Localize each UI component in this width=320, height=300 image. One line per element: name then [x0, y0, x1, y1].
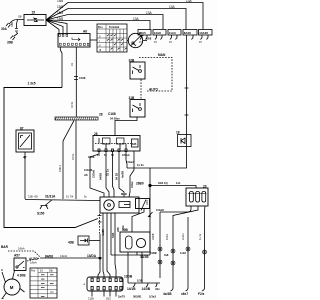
svg-text:13A: 13A — [186, 0, 193, 3]
svg-text:A57: A57 — [14, 254, 20, 258]
svg-text:C/Gx: C/Gx — [130, 181, 134, 188]
wiper position table — [30, 268, 57, 298]
connector C168 marks on wire 31 — [74, 77, 78, 80]
svg-text:x6x7: x6x7 — [181, 292, 188, 296]
S150 fork symbol — [40, 206, 48, 210]
wire A57 to washer motor — [13, 271, 15, 280]
svg-text:15/8: 15/8 — [57, 17, 63, 21]
tick marks on long wire — [185, 88, 189, 115]
svg-text:34/1B: 34/1B — [140, 255, 149, 259]
wiper switch feed line — [40, 257, 100, 259]
wire to battery feed left — [9, 20, 24, 25]
connector 20 box — [186, 188, 208, 206]
wire branch down — [14, 20, 18, 37]
gauge box with symbol — [16, 130, 34, 152]
connector label box C3 — [168, 30, 181, 36]
connector box A6 — [58, 34, 90, 48]
bottom collector line — [128, 282, 160, 284]
big ground box left — [4, 88, 98, 228]
svg-text:SB: SB — [18, 15, 22, 19]
relay internal contacts — [95, 143, 131, 145]
svg-text:44x: 44x — [155, 287, 160, 291]
svg-text:43B: 43B — [68, 241, 75, 245]
svg-text:1x18: 1x18 — [180, 251, 186, 255]
arrow end of wire C/Gx8 — [149, 212, 153, 217]
svg-text:F2/x: F2/x — [198, 292, 205, 296]
wire table to key circle — [127, 40, 147, 42]
svg-text:4x/08: 4x/08 — [121, 171, 125, 178]
svg-text:14/1B: 14/1B — [127, 287, 136, 291]
svg-text:C/Gx8: C/Gx8 — [92, 169, 96, 178]
svg-text:31B +30: 31B +30 — [28, 195, 38, 199]
terminal 30B — [11, 36, 16, 41]
svg-text:13A: 13A — [133, 17, 140, 21]
svg-text:15/8: 15/8 — [57, 0, 63, 3]
table grid lines — [97, 24, 127, 52]
svg-text:AUTO: AUTO — [149, 88, 158, 92]
linkage ticks — [98, 216, 102, 223]
splice bar 28 — [55, 117, 98, 120]
svg-text:30A: 30A — [1, 27, 8, 31]
wire diode to junction — [127, 147, 187, 169]
switch box 32B upper — [130, 62, 145, 79]
stubs under label boxes — [140, 35, 147, 40]
svg-text:13A5: 13A5 — [139, 31, 146, 35]
wire junction to strip — [98, 258, 100, 277]
svg-text:47: 47 — [23, 156, 27, 160]
svg-text:1x1: 1x1 — [176, 181, 181, 185]
ground S150 — [45, 200, 52, 206]
washer motor leads — [2, 272, 25, 298]
svg-text:M: M — [10, 285, 14, 290]
wire vertical x160 — [159, 212, 161, 278]
svg-text:SB6: SB6 — [10, 22, 14, 27]
long wire from C4 down to diode — [186, 35, 188, 135]
dashed linkage — [99, 214, 101, 234]
BAR dashed line — [8, 251, 40, 257]
svg-text:4x/08: 4x/08 — [101, 229, 105, 236]
wiper motor pins down — [103, 213, 104, 277]
svg-text:3x8: 3x8 — [164, 253, 169, 257]
wire 31 down — [75, 121, 77, 200]
wire junction down — [149, 186, 151, 256]
junction node — [149, 184, 151, 186]
switch symbol inside S1 — [27, 19, 44, 21]
A6 internal arrow — [72, 38, 80, 42]
svg-text:C168: C168 — [108, 112, 116, 116]
svg-text:AUTO: AUTO — [29, 257, 38, 261]
wire 31B to relay — [115, 117, 137, 136]
svg-text:x1x1x: x1x1x — [181, 233, 185, 240]
wire 20 right pin down — [204, 206, 207, 284]
wires from connector 20 — [160, 206, 191, 212]
connector label box C2 — [153, 30, 166, 36]
svg-text:31 5x: 31 5x — [70, 101, 74, 108]
top feed wire y=2.5 — [68, 3, 203, 30]
svg-text:54 28xx: 54 28xx — [110, 117, 120, 121]
svg-text:28B0: 28B0 — [136, 182, 144, 186]
svg-text:MxB: MxB — [121, 192, 127, 196]
svg-text:51 7/4: 51 7/4 — [66, 195, 74, 199]
svg-text:28: 28 — [99, 113, 103, 117]
link A6 to table — [90, 39, 97, 41]
wire 31B-1 — [63, 121, 74, 200]
strip pins — [91, 278, 93, 281]
svg-text:8A28: 8A28 — [184, 31, 191, 35]
svg-text:34/4 1Q: 34/4 1Q — [158, 181, 168, 185]
svg-text:31 1x: 31 1x — [106, 169, 110, 176]
top feed wire y=14.5 — [68, 15, 163, 30]
svg-text:2x/75: 2x/75 — [118, 295, 125, 299]
svg-text:84/08: 84/08 — [45, 255, 53, 259]
wires relay to wiper motor — [90, 152, 104, 198]
svg-text:18: 18 — [176, 131, 180, 135]
svg-text:31 5x: 31 5x — [71, 153, 75, 160]
svg-text:87: 87 — [20, 127, 24, 131]
wire 31 from A6 down — [75, 47, 77, 117]
key glyph inside circle — [131, 33, 144, 47]
washer motor M — [4, 279, 20, 295]
svg-text:C/GxA: C/GxA — [122, 154, 130, 157]
svg-text:54/0: 54/0 — [111, 232, 115, 238]
svg-text:MAN: MAN — [158, 53, 166, 57]
svg-text:302/81: 302/81 — [133, 295, 142, 299]
svg-text:BAR: BAR — [1, 245, 9, 249]
svg-text:A6: A6 — [84, 173, 88, 177]
svg-text:34DB: 34DB — [151, 233, 155, 240]
svg-text:15/8: 15/8 — [57, 11, 63, 15]
svg-text:30B: 30B — [7, 41, 14, 45]
svg-text:54 28: 54 28 — [115, 173, 119, 180]
splice symbols right verticals — [158, 247, 207, 265]
top feed wire y=8.5 — [68, 9, 186, 30]
ignition position table — [97, 24, 127, 52]
ignition switch S1 box "15" — [24, 15, 46, 26]
svg-text:13/DA: 13/DA — [87, 254, 97, 258]
svg-text:III: III — [99, 48, 101, 52]
svg-text:13A8: 13A8 — [154, 31, 161, 35]
svg-text:4 30B: 4 30B — [17, 274, 26, 278]
wire gauge down — [24, 152, 26, 199]
svg-text:34/1: 34/1 — [145, 199, 149, 205]
wiper table grid — [30, 268, 57, 298]
svg-text:53b: 53b — [49, 270, 54, 273]
switch box 31B lower — [130, 100, 145, 118]
svg-text:54/08: 54/08 — [99, 173, 103, 180]
svg-text:13A: 13A — [169, 5, 176, 9]
svg-text:15: 15 — [32, 11, 36, 15]
svg-text:C/GxA: C/GxA — [126, 160, 134, 164]
svg-text:Terminal: Terminal — [109, 26, 120, 29]
relay pins — [98, 149, 100, 152]
svg-text:13x41: 13x41 — [60, 254, 68, 258]
wire 20 middle pin down — [173, 206, 198, 284]
svg-text:14/3B: 14/3B — [142, 287, 151, 291]
wiper table marks — [41, 275, 54, 297]
connector label box C4 — [183, 30, 197, 36]
svg-text:11A3: 11A3 — [169, 31, 176, 35]
ignition key symbol circle — [128, 33, 142, 47]
svg-text:x08: x08 — [116, 227, 120, 232]
svg-text:20: 20 — [203, 185, 207, 189]
svg-text:S150: S150 — [37, 212, 45, 216]
svg-text:A6: A6 — [83, 30, 87, 34]
svg-text:x2/8: x2/8 — [146, 37, 152, 41]
junction node feed line — [99, 257, 101, 259]
diode symbol — [186, 135, 188, 147]
wire vertical x188 — [187, 217, 189, 284]
svg-text:31B-1: 31B-1 — [58, 165, 62, 172]
svg-text:1 3x5: 1 3x5 — [28, 82, 36, 86]
diode box 18 — [178, 135, 192, 147]
svg-text:4x/4B: 4x/4B — [163, 292, 172, 296]
svg-text:C168: C168 — [88, 155, 95, 159]
svg-text:1x 1x: 1x 1x — [198, 233, 202, 240]
top feed wire y=20.5 — [68, 21, 150, 30]
svg-text:30B: 30B — [122, 228, 129, 232]
connector label box C5 — [199, 30, 213, 36]
park switch box 43B — [78, 236, 89, 245]
wire junction to connector 20 — [150, 186, 196, 189]
svg-text:101A: 101A — [165, 234, 169, 240]
wiper motor assembly — [100, 197, 139, 213]
dashed link between switches — [140, 80, 142, 100]
heater motor box 30B — [120, 232, 150, 252]
connector label box C1 — [138, 30, 151, 36]
relay box 28 — [93, 136, 140, 152]
svg-text:1x 2x: 1x 2x — [137, 163, 144, 167]
svg-text:32B: 32B — [129, 59, 136, 63]
A6 pin squares — [59, 34, 89, 45]
terminal 30A left — [6, 23, 11, 28]
svg-text:C/Gx8: C/Gx8 — [156, 208, 164, 212]
svg-text:13DB: 13DB — [124, 275, 133, 279]
bottom connector strip 13DB — [87, 277, 123, 291]
wire A6 to big box — [60, 47, 62, 88]
svg-text:13A: 13A — [146, 11, 153, 15]
wire 43B to linkage — [89, 240, 100, 242]
svg-text:13A28: 13A28 — [199, 31, 208, 35]
fan-out wires from S1 — [46, 3, 68, 21]
strip bottom wires — [92, 291, 116, 297]
svg-text:1/8xA: 1/8xA — [18, 247, 25, 251]
svg-text:845: 845 — [132, 142, 137, 146]
svg-text:31/31A: 31/31A — [45, 195, 56, 199]
switch A57 — [14, 258, 26, 271]
svg-text:Pos: Pos — [98, 26, 103, 29]
MAN dashed wire — [139, 58, 172, 92]
svg-text:1/3B: 1/3B — [137, 279, 143, 283]
svg-text:1/3x2: 1/3x2 — [149, 295, 156, 299]
svg-text:C168: C168 — [79, 76, 86, 80]
svg-text:31DB: 31DB — [150, 251, 157, 255]
wire ends into bottom labels — [171, 284, 205, 291]
svg-text:28: 28 — [94, 132, 98, 136]
wires below 30B — [127, 252, 129, 283]
ground wire horizontal 31 — [25, 200, 100, 201]
svg-text:15/8: 15/8 — [57, 5, 63, 9]
table X marks — [107, 35, 127, 50]
svg-text:31B: 31B — [129, 96, 136, 100]
inline connector marks — [15, 29, 18, 32]
svg-text:C/Gx8: C/Gx8 — [84, 168, 93, 172]
svg-text:1/8xA: 1/8xA — [30, 261, 37, 265]
